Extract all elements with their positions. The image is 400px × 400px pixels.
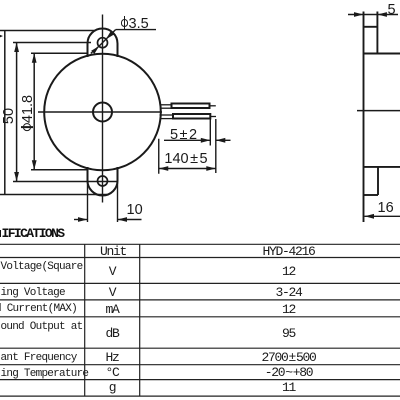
side view: bottom tab right edge xyxy=(377,167,379,195)
dim 50: dimension line with arrows xyxy=(16,43,18,182)
dimension label phi41.8 (rotated) xyxy=(20,95,36,131)
side view: left face line xyxy=(363,12,365,223)
cropped left dimension: vertical line xyxy=(4,31,6,195)
side view: centerline xyxy=(357,110,400,112)
table unit column xyxy=(100,244,126,259)
dim 50: top extension line xyxy=(13,42,91,44)
top tab hole xyxy=(98,38,108,48)
bottom tab hole xyxy=(98,176,108,186)
dim phi3.5: leader line through tab hole xyxy=(99,39,106,46)
side view dimension label 16 xyxy=(378,200,394,216)
lower lead wire xyxy=(160,114,173,116)
shared right extension line at wire tip xyxy=(215,119,217,173)
cropped left dimension: bottom extension line xyxy=(0,194,108,196)
bottom tab sides extended as extension lines for dim 10 xyxy=(87,181,89,223)
dim 5+-2: dimension line and arrows xyxy=(164,139,210,141)
top mounting tab xyxy=(88,29,118,57)
dim 140: left extension line at body edge xyxy=(158,139,160,174)
table value column xyxy=(262,244,314,259)
dimension label phi3.5 xyxy=(121,16,149,32)
dim phi41.8: top extension line xyxy=(31,52,88,54)
table: vertical lines xyxy=(85,244,140,396)
side view: top tab right edge xyxy=(376,12,378,54)
dim phi3.5: arrow upper-right pointing to hole xyxy=(106,31,114,39)
dimension label 50 (rotated) xyxy=(1,107,17,123)
side view dim 5: dimension line and arrows xyxy=(348,14,398,16)
side view: body top edge xyxy=(364,53,400,55)
dim 10: dimension line and arrows xyxy=(74,219,88,221)
cropped left dimension: top extension line xyxy=(0,30,96,32)
dim 5+-2: left extension line at insulation end xyxy=(209,119,211,146)
center sound hole xyxy=(93,103,112,122)
cropped arrow remnant at left edge xyxy=(0,35,3,38)
dim phi41.8: dimension line with arrows xyxy=(33,53,35,170)
dim phi41.8: bottom extension line xyxy=(31,169,88,171)
heading SPECIFICATIONS (cropped) xyxy=(2,226,64,241)
table left column texts (cropped at left edge) xyxy=(1,261,83,273)
bottom mounting tab xyxy=(88,167,118,196)
side view dimension label 5 xyxy=(388,2,396,18)
upper lead wire xyxy=(161,104,171,106)
table: horizontal lines xyxy=(0,244,400,396)
buzzer body circle (front view) xyxy=(44,54,161,171)
side view: bottom tab bottom edge xyxy=(364,194,379,196)
heading SPECIFICATIONS (cropped): sliver of cut C at page edge xyxy=(0,230,1,238)
side view dim 16: dimension line and arrow xyxy=(365,215,400,217)
dim phi3.5: arrow lower-left pointing to hole xyxy=(91,46,99,53)
side view: top tab top edge xyxy=(364,26,378,28)
dimension label 10 xyxy=(127,202,143,218)
side view: body bottom edge xyxy=(364,166,400,168)
vertical centerline xyxy=(102,15,104,203)
dim 140+-5: dimension line and arrows xyxy=(159,168,216,170)
dimension label 5+-2 xyxy=(170,127,197,143)
dimension label 140+-5 xyxy=(164,151,207,167)
dim 50: bottom extension line xyxy=(13,181,117,183)
horizontal centerline xyxy=(38,111,162,113)
